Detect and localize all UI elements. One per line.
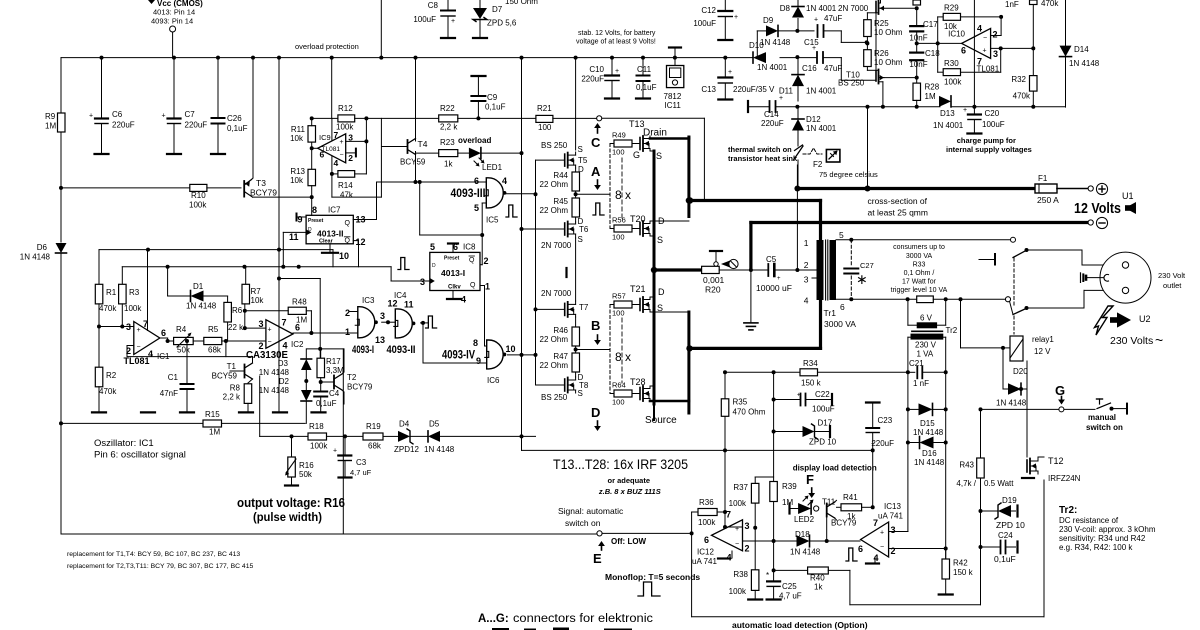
svg-text:switch on: switch on: [565, 518, 601, 528]
resistor R64: [610, 393, 614, 395]
wire IC2 pin7 pin4 rail: [278, 250, 280, 412]
svg-text:12: 12: [388, 299, 398, 309]
wire Tr1 pin3 stub: [812, 277, 817, 279]
transistor T4: [415, 139, 417, 141]
ground bars row: [273, 411, 287, 413]
wire pin12 down: [353, 240, 358, 242]
svg-text:F2: F2: [813, 160, 823, 169]
svg-text:R10: R10: [191, 191, 206, 200]
svg-text:R48: R48: [292, 298, 307, 307]
ground IC7 pin10: [329, 244, 331, 253]
svg-text:1M: 1M: [209, 428, 220, 437]
wire node B: [576, 349, 610, 351]
svg-text:220uF: 220uF: [112, 121, 135, 130]
svg-text:1: 1: [804, 238, 809, 248]
svg-text:250 A: 250 A: [1037, 195, 1059, 205]
svg-text:R18: R18: [309, 422, 324, 431]
svg-text:C4: C4: [329, 389, 340, 398]
svg-text:0,1 Ohm /: 0,1 Ohm /: [904, 270, 935, 277]
svg-text:IC2: IC2: [291, 340, 304, 349]
wire pin1 to IC6 pin8: [480, 285, 485, 287]
svg-text:8 x: 8 x: [615, 350, 631, 364]
svg-text:T1: T1: [227, 362, 237, 371]
svg-text:BS 250: BS 250: [541, 393, 568, 402]
transformer Tr1: [817, 240, 824, 300]
resistor R23: [416, 152, 439, 154]
connector E: [597, 531, 602, 536]
led LED2: [788, 504, 790, 514]
wire Vcc stub: [172, 32, 174, 58]
resistor R20: [702, 266, 720, 273]
svg-text:sensitivity: R34 und R42: sensitivity: R34 und R42: [1059, 534, 1146, 543]
svg-text:T13...T28: 16x IRF 3205: T13...T28: 16x IRF 3205: [553, 457, 688, 472]
svg-text:R23: R23: [440, 138, 455, 147]
junction: [520, 56, 524, 60]
wire T5 supply rail: [575, 58, 577, 150]
svg-text:R41: R41: [843, 493, 858, 502]
svg-text:E: E: [593, 551, 602, 566]
svg-text:−: −: [735, 541, 739, 548]
svg-text:T12: T12: [1048, 456, 1064, 466]
svg-text:S: S: [657, 235, 663, 245]
svg-text:IC8: IC8: [463, 243, 476, 252]
svg-text:Q: Q: [469, 257, 475, 264]
wire R37 R38 rail: [754, 503, 756, 570]
transistor T20: [639, 223, 641, 235]
svg-text:10k: 10k: [944, 22, 958, 31]
svg-text:T2: T2: [347, 373, 357, 382]
resistor R10: [190, 184, 207, 191]
resistor R48: [288, 307, 306, 314]
svg-text:100k: 100k: [189, 201, 207, 210]
svg-text:22 Ohm: 22 Ohm: [540, 180, 569, 189]
svg-text:D18: D18: [795, 530, 810, 539]
svg-text:4013: Pin 14: 4013: Pin 14: [153, 8, 195, 17]
svg-text:+: +: [734, 14, 738, 21]
svg-text:trigger level 10 VA: trigger level 10 VA: [891, 287, 948, 294]
resistor R9: [60, 58, 62, 113]
svg-text:68k: 68k: [368, 442, 382, 451]
svg-text:3000 VA: 3000 VA: [824, 319, 856, 329]
svg-text:3: 3: [126, 322, 131, 332]
svg-text:T4: T4: [418, 139, 428, 149]
svg-text:2: 2: [993, 30, 998, 40]
svg-text:C9: C9: [487, 93, 498, 102]
svg-text:−: −: [137, 344, 141, 351]
svg-text:R44: R44: [553, 171, 568, 180]
svg-text:manual: manual: [1088, 413, 1116, 422]
svg-text:Oszillator: IC1: Oszillator: IC1: [94, 438, 154, 449]
svg-text:replacement for T2,T3,T11: BCY: replacement for T2,T3,T11: BCY 79, BC 30…: [67, 563, 253, 570]
wire IC12 pin7: [727, 512, 729, 520]
wire R12 net: [312, 117, 338, 119]
svg-text:12: 12: [356, 237, 366, 247]
svg-text:10 Ohm: 10 Ohm: [874, 58, 903, 67]
svg-text:overload protection: overload protection: [295, 42, 359, 51]
wire T1 emitter rail: [259, 376, 261, 436]
svg-text:4093-II: 4093-II: [387, 344, 416, 356]
svg-text:0,1uF: 0,1uF: [316, 399, 337, 408]
svg-text:1N 4001: 1N 4001: [757, 63, 788, 72]
diode D20: [1002, 348, 1004, 389]
gate IC6 4093-IV: [487, 340, 503, 369]
svg-text:D10: D10: [749, 41, 764, 50]
svg-text:1N 4001: 1N 4001: [806, 4, 837, 13]
transistor T3: [243, 181, 245, 197]
resistor R49: [610, 143, 614, 145]
svg-text:3: 3: [993, 49, 998, 59]
wire C connector feed: [597, 116, 602, 121]
wire T10 source to rail: [881, 77, 917, 79]
thermal switch F2: [795, 145, 803, 151]
resistor R31: [1030, 0, 1038, 5]
transistor T21: [639, 299, 641, 311]
svg-text:G: G: [633, 150, 640, 160]
svg-text:+: +: [137, 327, 141, 334]
8x marker bottom: [621, 318, 623, 383]
svg-text:C17: C17: [923, 20, 938, 29]
diode D17 ZPD10: [774, 431, 803, 433]
svg-text:470k: 470k: [1041, 0, 1059, 8]
svg-text:*: *: [766, 571, 769, 580]
resistor R43: [980, 409, 982, 458]
svg-text:3,3M: 3,3M: [326, 366, 344, 375]
svg-text:+: +: [983, 48, 987, 55]
svg-text:TL081: TL081: [124, 356, 151, 367]
svg-text:6: 6: [161, 328, 166, 338]
pulse symbol: [426, 316, 437, 328]
svg-text:150 Ohm: 150 Ohm: [505, 0, 538, 6]
wire left rail upper: [60, 132, 62, 242]
wire pin2 feedback: [480, 264, 482, 266]
svg-text:1N 4148: 1N 4148: [186, 302, 217, 311]
svg-text:Clkv: Clkv: [448, 285, 461, 291]
wire Tr1 pin5: [836, 239, 1011, 241]
svg-text:+: +: [268, 327, 272, 334]
wire D9 feed: [756, 31, 758, 58]
svg-text:consumers up to: consumers up to: [893, 244, 945, 251]
pulse symbol: [846, 548, 857, 561]
svg-text:1N 4148: 1N 4148: [914, 458, 945, 467]
svg-text:thermal switch on: thermal switch on: [728, 145, 792, 154]
junction: [673, 56, 677, 60]
diode D7: [479, 0, 481, 8]
svg-text:1k: 1k: [814, 583, 823, 592]
svg-text:C24: C24: [998, 531, 1013, 540]
wire R13 down rail: [311, 186, 313, 197]
svg-text:IC12: IC12: [697, 548, 714, 557]
bus lower to right: [522, 449, 873, 451]
svg-text:voltage of at least 9 Volts!: voltage of at least 9 Volts!: [576, 39, 656, 46]
svg-text:transistor heat sink: transistor heat sink: [728, 154, 798, 163]
wire bus to overload box: [331, 58, 333, 119]
resistor R4 pot: [168, 340, 174, 342]
pulse symbol: [506, 205, 517, 217]
svg-text:G: G: [1055, 383, 1065, 398]
gate IC5 4093-III: [486, 178, 503, 208]
terminal minus: [1096, 217, 1107, 228]
gate rail 2: [535, 160, 537, 385]
svg-text:1 nF: 1 nF: [913, 379, 929, 388]
transistor T8 BS250: [575, 372, 577, 377]
svg-text:D7: D7: [492, 5, 503, 14]
wire R18 net: [260, 435, 308, 437]
gate bus dashed bottom: [609, 305, 611, 394]
svg-text:1N 4001: 1N 4001: [933, 121, 964, 130]
wire IC4 out down to IC6 pin9: [422, 323, 424, 363]
svg-text:F1: F1: [1038, 174, 1048, 183]
svg-text:7: 7: [282, 318, 287, 328]
svg-text:C7: C7: [185, 110, 196, 119]
svg-text:10: 10: [339, 251, 349, 261]
svg-text:R20: R20: [705, 285, 721, 295]
wire source bus to Tr1 pin4 thick: [690, 347, 821, 350]
svg-text:C12: C12: [701, 6, 716, 15]
svg-text:3000 VA: 3000 VA: [906, 253, 933, 260]
flipflop IC8 4013-I: [430, 252, 480, 290]
svg-text:BCY79: BCY79: [347, 383, 373, 392]
resistor R37: [751, 483, 759, 503]
svg-text:1nF: 1nF: [1005, 0, 1019, 9]
capacitor C23: [866, 401, 880, 403]
svg-text:12 V: 12 V: [1034, 347, 1051, 356]
transistor T28: [639, 388, 641, 400]
wire IC4 out: [421, 322, 429, 324]
svg-text:R57: R57: [612, 292, 626, 301]
svg-text:6 V: 6 V: [920, 314, 933, 323]
svg-text:R49: R49: [612, 131, 626, 140]
svg-text:R36: R36: [699, 498, 714, 507]
resistor R39: [770, 482, 778, 502]
svg-text:IC4: IC4: [394, 291, 407, 300]
svg-text:R2: R2: [106, 371, 117, 380]
svg-text:9: 9: [298, 215, 303, 225]
resistor R2: [98, 327, 100, 368]
wire R15 up to D2: [304, 401, 306, 423]
svg-text:13: 13: [375, 335, 385, 345]
svg-text:100uF: 100uF: [812, 405, 835, 414]
svg-text:R45: R45: [553, 197, 568, 206]
svg-text:R40: R40: [810, 574, 825, 583]
wire charge pump net: [951, 106, 1066, 108]
svg-text:230 V: 230 V: [915, 341, 937, 350]
svg-text:C26: C26: [227, 114, 242, 123]
svg-text:C5: C5: [766, 255, 777, 264]
capacitor C8: [447, 0, 449, 10]
diode D15: [908, 408, 919, 410]
svg-text:+: +: [728, 69, 732, 76]
junction: [172, 56, 176, 60]
relay contact dashed link: [1013, 258, 1015, 305]
junction: [686, 197, 692, 203]
svg-text:or adequate: or adequate: [608, 476, 651, 485]
svg-text:100k: 100k: [310, 442, 328, 451]
wire R25 R26 node: [866, 37, 868, 50]
svg-text:0,1uF: 0,1uF: [227, 124, 248, 133]
wire R17 top branch: [279, 278, 320, 280]
wire rail R35 down: [724, 416, 726, 527]
svg-text:relay1: relay1: [1032, 335, 1054, 344]
resistor R5: [204, 337, 222, 344]
svg-text:9: 9: [476, 356, 481, 366]
svg-text:TL081: TL081: [322, 146, 341, 153]
diode D14: [1065, 0, 1067, 46]
box overload protection: [331, 118, 333, 197]
junction: [100, 56, 104, 60]
svg-text:R64: R64: [612, 381, 626, 390]
arrow U1: [1125, 202, 1136, 214]
wire T21 source: [650, 311, 689, 313]
svg-text:+: +: [797, 393, 801, 399]
resistor R22: [439, 115, 458, 122]
svg-text:C27: C27: [860, 261, 874, 270]
svg-text:68k: 68k: [208, 346, 222, 355]
svg-text:S: S: [578, 145, 583, 154]
svg-text:A...G:: A...G:: [478, 613, 509, 625]
wire T10 drain down: [879, 81, 883, 83]
svg-text:R19: R19: [366, 422, 381, 431]
svg-text:outlet: outlet: [1163, 281, 1182, 290]
resistor R13: [308, 169, 316, 185]
wire 12V plus thick: [797, 187, 1035, 190]
wire outlet switch 2: [1013, 309, 1026, 315]
svg-text:T21: T21: [630, 284, 646, 294]
diode D2: [301, 390, 312, 401]
svg-text:1: 1: [345, 327, 350, 337]
svg-text:R29: R29: [944, 4, 959, 13]
svg-text:R43: R43: [959, 461, 974, 470]
svg-text:D20: D20: [1013, 367, 1028, 376]
wire T21 drain: [650, 296, 654, 298]
svg-text:6: 6: [704, 535, 709, 545]
svg-text:T5: T5: [578, 156, 588, 165]
svg-text:50k: 50k: [299, 470, 313, 479]
pulse symbol: [593, 203, 604, 215]
resistor R30: [938, 71, 944, 73]
transistor T5: [564, 154, 566, 166]
wire R34 C21 net: [725, 371, 800, 373]
wire R40 corner: [849, 570, 851, 604]
capacitor C12: [724, 0, 726, 11]
diode D4 ZPD12: [398, 431, 410, 442]
svg-text:470 Ohm: 470 Ohm: [733, 408, 766, 417]
resistor R3: [121, 267, 123, 285]
svg-text:1N 4148: 1N 4148: [259, 386, 290, 395]
svg-text:75 degree celsius: 75 degree celsius: [819, 170, 878, 179]
wire pin13 to IC5: [353, 219, 376, 221]
wire T5 gate: [536, 159, 565, 161]
wire R29 to pin2: [999, 15, 1003, 19]
wire IC5 out to rail: [506, 193, 535, 195]
svg-text:22 k: 22 k: [228, 323, 244, 332]
wire Tr1 pin2 vertical: [796, 165, 798, 270]
svg-text:T6: T6: [579, 225, 589, 234]
svg-text:1k: 1k: [444, 160, 453, 169]
svg-text:R39: R39: [782, 482, 797, 491]
transistor T1: [244, 365, 246, 378]
earth ground: [750, 270, 752, 323]
junction: [915, 105, 919, 109]
svg-text:7: 7: [726, 510, 731, 520]
wire driver rail 1 top: [521, 58, 523, 451]
wire R20 to Tr1 pin2: [719, 269, 768, 271]
regulator IC11 7812: [669, 46, 681, 48]
capacitor C11: [642, 58, 644, 75]
wire IC1 out: [160, 337, 168, 339]
svg-text:D9: D9: [763, 16, 774, 25]
bus source dotted mid: [653, 306, 656, 386]
svg-text:R21: R21: [537, 104, 552, 113]
svg-text:1M: 1M: [782, 498, 793, 507]
resistor R6: [227, 296, 229, 302]
svg-text:10k: 10k: [290, 134, 304, 143]
wire T9 source to rail: [881, 7, 917, 9]
svg-text:cross-section of: cross-section of: [868, 196, 928, 206]
svg-text:C20: C20: [985, 109, 1000, 118]
junction: [865, 40, 869, 44]
svg-text:230 Volt: 230 Volt: [1158, 271, 1186, 280]
svg-text:switch on: switch on: [1086, 423, 1123, 432]
svg-text:D3: D3: [278, 359, 289, 368]
capacitor C3: [344, 436, 346, 455]
svg-text:100uF: 100uF: [982, 120, 1005, 129]
diode D5: [428, 431, 440, 442]
svg-text:8 x: 8 x: [615, 188, 631, 202]
junction: [414, 56, 418, 60]
svg-text:D8: D8: [780, 4, 791, 13]
wire box to D3: [305, 349, 307, 359]
wire T13 source: [650, 150, 654, 152]
svg-text:D: D: [432, 263, 436, 269]
svg-text:10: 10: [506, 344, 516, 354]
svg-text:Drain: Drain: [643, 128, 667, 139]
svg-text:2: 2: [891, 546, 896, 556]
wire IC10 output: [917, 42, 962, 44]
svg-text:R28: R28: [925, 83, 940, 92]
svg-text:R35: R35: [733, 398, 748, 407]
box lower left corner wires: [307, 348, 344, 350]
wire T20 drain: [650, 220, 689, 222]
svg-text:T3: T3: [256, 178, 266, 188]
wire T9 drain to R25: [867, 12, 878, 14]
svg-text:−: −: [880, 544, 884, 551]
svg-text:T11: T11: [822, 498, 836, 507]
outlet socket: [1100, 252, 1151, 303]
wire switch2 to outlet pin: [1027, 307, 1085, 309]
capacitor C17: [916, 8, 918, 25]
svg-text:100uF: 100uF: [413, 15, 436, 24]
capacitor C25: [767, 580, 780, 582]
svg-text:220uF: 220uF: [185, 121, 208, 130]
capacitor C14: [747, 101, 749, 112]
capacitor C15: [817, 25, 819, 37]
connector bar mid: [565, 268, 567, 277]
svg-text:7: 7: [334, 130, 339, 140]
wire D20 to T12 gate: [1026, 389, 1028, 457]
svg-text:220uF: 220uF: [581, 75, 604, 84]
wire R21 to connector C: [553, 117, 597, 119]
resistor R34: [800, 369, 818, 376]
wire R37 top: [754, 477, 756, 483]
svg-text:+: +: [333, 448, 337, 455]
svg-text:U2: U2: [1139, 314, 1151, 324]
wire G manual switch: [981, 408, 1059, 410]
svg-text:C1: C1: [168, 373, 179, 382]
svg-text:4,7 uF: 4,7 uF: [779, 592, 802, 601]
resistor R47: [575, 346, 577, 353]
svg-text:C10: C10: [589, 65, 604, 74]
svg-text:1N 4148: 1N 4148: [913, 428, 944, 437]
